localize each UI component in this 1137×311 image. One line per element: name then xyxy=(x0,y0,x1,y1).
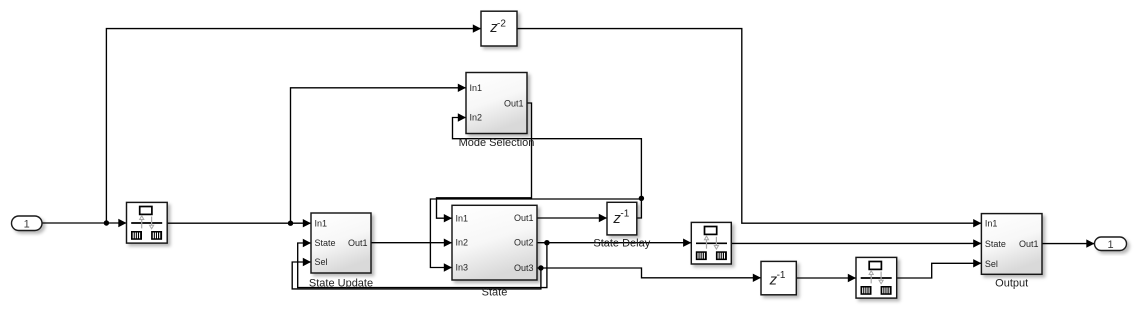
wire z-1 bottom to unbuffer3 xyxy=(796,274,856,282)
wire State Delay output to Mode Selection In2 xyxy=(453,113,642,218)
wire unbuffer2 to Output State xyxy=(731,239,981,247)
wire Output Out1 to outport xyxy=(1042,239,1095,247)
wire State Update Out1 to State In2 xyxy=(371,239,452,247)
wire branch up to z-2 delay xyxy=(106,24,481,223)
svg-text:-1: -1 xyxy=(777,270,786,281)
subsystem Mode Selection xyxy=(459,73,535,150)
delay block z-2 xyxy=(481,11,517,46)
svg-text:In1: In1 xyxy=(470,83,483,93)
svg-text:Out2: Out2 xyxy=(514,238,534,248)
svg-text:State Delay: State Delay xyxy=(593,237,650,249)
junction dot input branch xyxy=(104,220,109,225)
svg-text:Out1: Out1 xyxy=(1019,239,1039,249)
svg-text:Out1: Out1 xyxy=(348,238,368,248)
svg-text:1: 1 xyxy=(24,218,30,230)
svg-text:Out3: Out3 xyxy=(514,263,534,273)
svg-text:In2: In2 xyxy=(456,238,469,248)
svg-text:State: State xyxy=(482,287,508,299)
delay block z-1 State Delay xyxy=(593,202,650,249)
wire input to unbuffer1 xyxy=(42,219,127,227)
wire Mode Selection Out1 to State In1 xyxy=(437,103,532,222)
svg-text:Sel: Sel xyxy=(315,257,328,267)
svg-text:In1: In1 xyxy=(985,219,998,229)
junction dot to mode selection branch xyxy=(288,221,293,226)
svg-text:In3: In3 xyxy=(456,263,469,273)
svg-text:In2: In2 xyxy=(470,113,483,123)
outport 1 xyxy=(1095,237,1127,251)
wire feedback Out3 to State Update Sel xyxy=(292,258,541,289)
wire feedback Out2 to State Update State xyxy=(298,239,547,288)
svg-text:-2: -2 xyxy=(497,18,506,29)
unbuffer block 3 xyxy=(856,257,897,298)
inport 1 xyxy=(12,216,43,231)
svg-text:Sel: Sel xyxy=(985,259,998,269)
wire State Out3 to z-1 bottom xyxy=(537,268,761,282)
svg-text:In1: In1 xyxy=(456,213,469,223)
unbuffer block 2 xyxy=(691,222,731,264)
delay block z-1 bottom xyxy=(761,261,796,294)
svg-text:1: 1 xyxy=(1107,239,1113,251)
svg-text:State: State xyxy=(315,238,336,248)
wire unbuffer3 to Output Sel xyxy=(897,259,982,278)
wire branch up to Mode Selection In1 xyxy=(291,84,467,224)
svg-text:-1: -1 xyxy=(620,209,629,220)
wire branch to State In3 xyxy=(430,199,641,272)
unbuffer block 1 xyxy=(127,202,168,243)
wire State Out1 to State Delay xyxy=(537,214,607,222)
subsystem State Update xyxy=(309,213,373,290)
svg-text:Out1: Out1 xyxy=(514,213,534,223)
svg-text:Out1: Out1 xyxy=(504,98,524,108)
svg-text:Output: Output xyxy=(995,277,1028,289)
svg-text:State Update: State Update xyxy=(309,278,373,290)
wire State Out2 to unbuffer2 xyxy=(537,239,691,247)
subsystem State xyxy=(452,205,537,298)
wire unbuffer1 to State Update In1 xyxy=(167,219,311,227)
junction dot out2 xyxy=(544,240,549,245)
svg-text:State: State xyxy=(985,239,1006,249)
svg-text:In1: In1 xyxy=(315,219,328,229)
wire z-2 output to Output In1 xyxy=(517,29,981,228)
subsystem Output xyxy=(981,214,1042,290)
junction dot state delay branch xyxy=(639,196,644,201)
junction dot out3 xyxy=(538,265,543,270)
svg-text:Mode Selection: Mode Selection xyxy=(459,137,535,149)
